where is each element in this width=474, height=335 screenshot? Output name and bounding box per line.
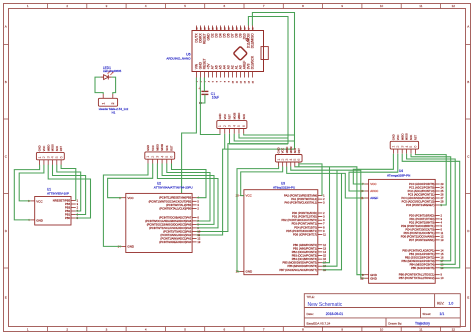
wire J3 pin4 to U2 PA5 — [162, 164, 214, 225]
svg-text:PB7 (PCINT7/XTAL2/TOSC2): PB7 (PCINT7/XTAL2/TOSC2) — [399, 276, 435, 280]
svg-text:PC2 (ADC2/PCINT10): PC2 (ADC2/PCINT10) — [408, 189, 435, 193]
wire J3 pin6 to U2 PB3 — [172, 164, 207, 198]
svg-text:PB5 (MOSI/DI/SDA/PCINT5): PB5 (MOSI/DI/SDA/PCINT5) — [283, 261, 318, 265]
svg-text:PC4 (ADC4/SDA/PCINT12): PC4 (ADC4/SDA/PCINT12) — [401, 196, 434, 200]
svg-text:SCK: SCK — [55, 146, 59, 152]
wire J1 pin 6 to trunk node — [244, 134, 295, 135]
svg-text:MOSI: MOSI — [160, 144, 164, 151]
svg-text:MOSI: MOSI — [232, 112, 236, 119]
svg-text:PB0 (AIN0/PCINT0): PB0 (AIN0/PCINT0) — [293, 243, 317, 247]
svg-text:(PCINT6/OC1A/SDA/MOSI/ADC6)PA6: (PCINT6/OC1A/SDA/MOSI/ADC6)PA6 — [145, 219, 192, 223]
svg-text:VCC: VCC — [223, 114, 227, 120]
svg-text:PD1 (PCINT17/TXD): PD1 (PCINT17/TXD) — [409, 217, 434, 221]
svg-text:(PCINT8/XTAL1/CLKI)PB0: (PCINT8/XTAL1/CLKI)PB0 — [159, 207, 191, 211]
svg-text:PA1 (PCINT9/XTAL2): PA1 (PCINT9/XTAL2) — [291, 197, 317, 201]
svg-text:10: 10 — [380, 4, 384, 8]
svg-text:PC5 (ADC5/SCL/PCINT13): PC5 (ADC5/SCL/PCINT13) — [402, 200, 435, 204]
wire J4 pin4 bus to U4 GND pin 22 — [291, 167, 365, 279]
svg-text:MISO: MISO — [237, 113, 241, 120]
wire J4 pin1 to U3 GND — [237, 167, 279, 272]
IC U2 labels — [154, 182, 193, 190]
svg-text:PD4 (PCINT20/XCK/T0): PD4 (PCINT20/XCK/T0) — [405, 227, 434, 231]
svg-text:(PCINT5/OC1B/MISO/DO/ADC5)PA5: (PCINT5/OC1B/MISO/DO/ADC5)PA5 — [147, 222, 192, 226]
svg-text:VCC: VCC — [281, 148, 285, 154]
svg-text:H1: H1 — [112, 111, 116, 115]
svg-text:10uF: 10uF — [212, 96, 219, 100]
wire LED cathode to H1 pin 2 — [112, 77, 116, 94]
svg-text:GND: GND — [246, 270, 254, 274]
svg-text:A: A — [5, 24, 7, 28]
wire nano D13 to U2 PA2 (trunk) — [197, 13, 295, 236]
svg-text:GND: GND — [38, 145, 42, 151]
wire J2 pin6 to U1 NRESET — [61, 165, 76, 201]
wire nano GND pin down to J1 pin 1 — [200, 78, 220, 135]
wire J2 pin3 to U1 PB0 — [48, 165, 90, 218]
svg-text:ATTINY85V-10P: ATTINY85V-10P — [47, 191, 69, 195]
svg-text:PB6 (PCINT6/XTAL1/TOSC1): PB6 (PCINT6/XTAL1/TOSC1) — [399, 273, 435, 277]
wire J3 pin2 to U2 VCC — [108, 164, 153, 198]
svg-text:MISO: MISO — [285, 147, 289, 154]
svg-text:PB3 (MOSI/OC2A/PCINT3): PB3 (MOSI/OC2A/PCINT3) — [402, 259, 435, 263]
wire J4 pin2 to U3 VCC — [241, 167, 283, 196]
svg-text:PC1 (ADC1/PCINT9): PC1 (ADC1/PCINT9) — [409, 186, 434, 190]
svg-text:GND: GND — [392, 134, 396, 140]
wire J4 pin3 bus to U4 AREF — [287, 167, 365, 199]
svg-text:(PCINT2/AIN1/ADC2)PA2: (PCINT2/AIN1/ADC2)PA2 — [160, 233, 191, 237]
svg-text:MISO: MISO — [156, 144, 160, 151]
wire J5 pin1 to U4 VCC — [353, 154, 393, 184]
wire J2 pin1 to U1 GND — [14, 165, 39, 220]
header H1 Header-Male-2.54_1x2 — [98, 94, 117, 106]
svg-text:PD4 (PCINT15/T0): PD4 (PCINT15/T0) — [294, 225, 317, 229]
wire branch to U3 PB5 — [322, 167, 329, 263]
svg-text:21: 21 — [360, 196, 364, 200]
wire J5 pin4 to U4 PB4 — [407, 154, 456, 265]
wire branch to U3 PB6 — [322, 170, 337, 266]
svg-text:VCC: VCC — [36, 199, 43, 203]
svg-text:ATmega328P-PN: ATmega328P-PN — [387, 173, 410, 177]
svg-text:PD3 (PCINT19/OC2B/INT1): PD3 (PCINT19/OC2B/INT1) — [401, 224, 435, 228]
arduino nano U6 bottom pins — [195, 55, 255, 83]
svg-text:10: 10 — [380, 328, 384, 332]
svg-text:(PCINT4/T1/SCL/USCK/ADC4)PA4: (PCINT4/T1/SCL/USCK/ADC4)PA4 — [149, 226, 192, 230]
LED1 labels — [103, 66, 122, 73]
wire J1 pin 4 to trunk node — [234, 134, 294, 141]
svg-text:D13/SCK: D13/SCK — [251, 55, 255, 69]
svg-text:AVCC: AVCC — [370, 189, 379, 193]
wire J3 pin3 to U2 PA4 — [157, 164, 218, 228]
svg-text:(PCINT1/AIN0/ADC1)PA1: (PCINT1/AIN0/ADC1)PA1 — [160, 236, 191, 240]
svg-text:GND: GND — [370, 276, 378, 280]
svg-text:1/1: 1/1 — [440, 312, 445, 316]
svg-text:22: 22 — [360, 276, 364, 280]
svg-text:MISO: MISO — [400, 133, 404, 140]
svg-text:New Schematic: New Schematic — [308, 302, 343, 308]
svg-text:MISO: MISO — [46, 145, 50, 152]
wire nano D12 to U2 PA3 (trunk) — [197, 17, 288, 232]
IC U4 labels — [387, 169, 410, 178]
svg-text:PB4 (MISO/PCINT4): PB4 (MISO/PCINT4) — [410, 262, 435, 266]
IC U4 body — [360, 179, 444, 283]
svg-text:PD6 (ICP/PCINT17): PD6 (ICP/PCINT17) — [293, 233, 317, 237]
svg-text:PC3 (ADC3/PCINT11): PC3 (ADC3/PCINT11) — [408, 193, 435, 197]
svg-text:TITLE:: TITLE: — [307, 295, 315, 299]
wire J1 pin 2 stub to bus — [224, 134, 226, 149]
svg-text:EasyEDA V5.7.24: EasyEDA V5.7.24 — [307, 321, 331, 325]
svg-text:SCK: SCK — [409, 134, 413, 140]
svg-text:SCK: SCK — [242, 114, 246, 120]
svg-text:Date:: Date: — [307, 312, 314, 316]
svg-text:(PCINT10/INT0/OC0A/CKOUT)PB2: (PCINT10/INT0/OC0A/CKOUT)PB2 — [149, 199, 192, 203]
svg-text:PB4 (OC1B/PCINT4): PB4 (OC1B/PCINT4) — [292, 257, 317, 261]
svg-text:VCC: VCC — [246, 194, 253, 198]
svg-text:PD5 (PCINT21/OC0B/T1): PD5 (PCINT21/OC0B/T1) — [404, 231, 435, 235]
LED LED1 — [101, 70, 114, 79]
arduino nano U6 top pins — [195, 26, 255, 49]
wire J1 pin 3 to trunk node — [230, 134, 289, 144]
svg-text:Drawn By:: Drawn By: — [388, 321, 402, 325]
svg-text:1.0: 1.0 — [449, 302, 454, 306]
svg-text:Sheet:: Sheet: — [422, 312, 431, 316]
svg-text:PD1 (PCINT12/TXD): PD1 (PCINT12/TXD) — [292, 215, 317, 219]
svg-text:12: 12 — [452, 4, 456, 8]
svg-text:PB7 (USCK/SCL/SCK/PCINT7): PB7 (USCK/SCL/SCK/PCINT7) — [279, 268, 317, 272]
svg-text:(PCINT9/XTAL2)PB1: (PCINT9/XTAL2)PB1 — [166, 203, 192, 207]
IC U2 body — [118, 193, 201, 252]
header J2 (ATTINY85 ISP) — [36, 144, 64, 165]
svg-text:ARDUINO_NANO: ARDUINO_NANO — [166, 56, 191, 60]
title block — [304, 294, 460, 327]
capacitor C1 labels — [211, 92, 219, 100]
svg-text:SCK: SCK — [165, 145, 169, 151]
svg-text:RST: RST — [170, 145, 174, 151]
svg-text:RST: RST — [297, 148, 301, 154]
svg-text:11: 11 — [419, 328, 422, 332]
svg-text:PB0: PB0 — [65, 216, 71, 220]
wire nano RESET pin to C1 top — [203, 78, 205, 92]
arduino nano U6 body — [192, 31, 268, 72]
svg-text:2: 2 — [111, 103, 115, 105]
wire branch to U3 PB7 — [322, 173, 341, 269]
wire J5 pin2 to U4 AVCC — [349, 154, 398, 191]
svg-text:MOSI: MOSI — [51, 144, 55, 151]
svg-text:(PCINT7/OC0B/ADC7)PA7: (PCINT7/OC0B/ADC7)PA7 — [159, 215, 192, 219]
IC U3 body — [236, 190, 327, 275]
wire nano VIN pin down-left to U2 area — [182, 78, 197, 194]
wire J2 pin4 to U1 PB1 — [53, 165, 86, 215]
svg-text:GND: GND — [218, 114, 222, 120]
wire J3 pin1 to U2 GND — [103, 164, 148, 247]
wire J5 pin3 to U4 PB5 — [402, 154, 460, 268]
svg-text:D12/MISO: D12/MISO — [251, 33, 255, 48]
header J3 (ATTINY84 ISP) — [145, 144, 175, 164]
svg-text:PD6 (PCINT22/OC0A/AIN0): PD6 (PCINT22/OC0A/AIN0) — [401, 234, 435, 238]
svg-text:RST: RST — [228, 114, 232, 120]
header H1 labels — [99, 107, 129, 114]
svg-text:PB5 (SCK/PCINT5): PB5 (SCK/PCINT5) — [411, 266, 435, 270]
svg-text:PD0 (PCINT16/RXD): PD0 (PCINT16/RXD) — [409, 213, 434, 217]
svg-text:U4: U4 — [399, 169, 403, 173]
svg-text:2018-09-01: 2018-09-01 — [326, 312, 343, 316]
svg-text:PB6 (MISO/DO/PCINT6): PB6 (MISO/DO/PCINT6) — [287, 264, 317, 268]
svg-text:PB1 (AIN1/PCINT1): PB1 (AIN1/PCINT1) — [293, 246, 317, 250]
wire J1 pin 5 to trunk node — [239, 134, 288, 138]
wire J2 pin2 to U1 VCC — [19, 165, 44, 201]
svg-text:RST: RST — [59, 146, 63, 152]
svg-text:GND: GND — [127, 245, 134, 249]
svg-text:1: 1 — [101, 103, 105, 105]
svg-text:RST: RST — [414, 134, 418, 140]
wire LED anode to H1 pin 1 — [95, 77, 103, 94]
svg-text:PA0 (PCINT8/CLKI/XTAL1): PA0 (PCINT8/CLKI/XTAL1) — [285, 201, 318, 205]
svg-text:GND: GND — [36, 218, 44, 222]
wire C1 bottom to GND junction — [200, 94, 205, 103]
svg-text:VCC: VCC — [151, 145, 155, 151]
svg-text:AREF: AREF — [370, 196, 378, 200]
svg-text:A: A — [467, 24, 469, 28]
svg-text:MOSI: MOSI — [289, 146, 293, 153]
header J1 ISP — [217, 112, 247, 133]
svg-text:PD2 (PCINT13/CKOUT/INT0): PD2 (PCINT13/CKOUT/INT0) — [281, 218, 317, 222]
svg-text:GND: GND — [146, 145, 150, 151]
svg-text:PB2 (SS/OC1B/PCINT2): PB2 (SS/OC1B/PCINT2) — [405, 255, 435, 259]
svg-text:PD7 (PCINT23/AIN1): PD7 (PCINT23/AIN1) — [409, 238, 435, 242]
svg-text:E: E — [467, 296, 469, 300]
capacitor C1 — [198, 86, 208, 94]
wire J4 pin6 to U3 PA2 — [299, 164, 322, 196]
svg-text:PB0 (PCINT0/CLKO/ICP1): PB0 (PCINT0/CLKO/ICP1) — [402, 248, 434, 252]
svg-text:PC0 (ADC0/PCINT8): PC0 (ADC0/PCINT8) — [409, 182, 434, 186]
svg-text:PC6 (PCINT14/RESET): PC6 (PCINT14/RESET) — [406, 203, 435, 207]
wire J5 pin5 to U4 PB3 — [411, 154, 451, 261]
svg-text:12: 12 — [452, 328, 456, 332]
svg-text:PD2 (PCINT18/INT0): PD2 (PCINT18/INT0) — [409, 220, 434, 224]
svg-text:E: E — [5, 296, 7, 300]
svg-text:ATTINY84A/ATTINY84-20PU: ATTINY84A/ATTINY84-20PU — [154, 186, 193, 190]
svg-text:VCC: VCC — [42, 146, 46, 152]
svg-text:B: B — [5, 80, 7, 84]
svg-text:REV:: REV: — [437, 302, 444, 306]
IC U1 labels — [47, 188, 69, 196]
svg-text:PB1 (OC1A/PCINT1): PB1 (OC1A/PCINT1) — [409, 252, 434, 256]
svg-text:PA2 (PCINT10/RESET/dW): PA2 (PCINT10/RESET/dW) — [284, 194, 317, 198]
svg-text:PB2 (OC0A/PCINT2): PB2 (OC0A/PCINT2) — [292, 250, 317, 254]
svg-text:GND: GND — [277, 147, 281, 153]
svg-text:Trajectory: Trajectory — [415, 322, 430, 326]
svg-text:VCC: VCC — [396, 134, 400, 140]
wire J3 pin5 to U2 PA6 — [167, 164, 210, 222]
svg-text:11: 11 — [419, 4, 422, 8]
svg-text:PD0 (PCINT11/RXD): PD0 (PCINT11/RXD) — [292, 211, 317, 215]
svg-text:PB3 (OC1A/PCINT3): PB3 (OC1A/PCINT3) — [292, 254, 317, 258]
svg-text:(PCINT0/AREF/ADC0)PA0: (PCINT0/AREF/ADC0)PA0 — [159, 240, 192, 244]
svg-text:ATtiny2313A-PU: ATtiny2313A-PU — [273, 186, 295, 190]
svg-text:(PCINT11/RESET/dW)PB3: (PCINT11/RESET/dW)PB3 — [159, 196, 192, 200]
svg-text:LED-Red0805: LED-Red0805 — [103, 69, 122, 73]
svg-text:16: 16 — [253, 27, 255, 30]
header J4 (ATtiny2313 ISP) — [275, 146, 302, 166]
svg-text:VCC: VCC — [127, 196, 134, 200]
svg-text:PD3 (PCINT14/INT1): PD3 (PCINT14/INT1) — [292, 222, 317, 226]
IC U1 body — [28, 197, 79, 226]
junction dot at GND node — [199, 102, 201, 104]
svg-text:(PCINT3/T0/ADC3)PA3: (PCINT3/T0/ADC3)PA3 — [163, 229, 192, 233]
svg-text:PD5 (PCINT16/OC0B/T1): PD5 (PCINT16/OC0B/T1) — [286, 229, 317, 233]
wire J5 pin6 to U4 PC6 reset — [415, 154, 446, 205]
svg-text:SCK: SCK — [293, 148, 297, 154]
svg-text:B: B — [467, 80, 469, 84]
IC U3 labels — [273, 182, 295, 190]
arduino nano U6 reference label — [166, 52, 191, 60]
wire J4 pin5 bus to U4 GND pin 8 — [295, 167, 365, 275]
header J5 (ATmega328 ISP) — [390, 133, 418, 154]
svg-text:VCC: VCC — [370, 182, 377, 186]
wire J2 pin5 to U1 PB2 — [57, 165, 81, 211]
svg-text:MOSI: MOSI — [405, 133, 409, 140]
